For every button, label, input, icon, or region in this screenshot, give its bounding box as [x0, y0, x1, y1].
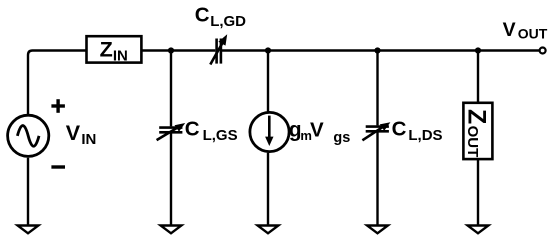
- label CL,GD: [195, 3, 246, 30]
- junction: output net at CL,DS branch: [374, 47, 380, 53]
- svg-text:C: C: [392, 118, 407, 141]
- label VIN: [66, 121, 97, 148]
- wire: VIN to ground: [27, 158, 29, 226]
- svg-text:OUT: OUT: [518, 25, 548, 41]
- ground (CL,GS): [161, 226, 182, 234]
- svg-text:Z: Z: [463, 109, 491, 124]
- impedance ZOUT: [463, 103, 492, 159]
- wire: current source to ground: [267, 153, 269, 226]
- polarity minus: [51, 165, 65, 168]
- svg-text:C: C: [195, 3, 210, 26]
- svg-text:OUT: OUT: [464, 126, 481, 158]
- wire: output net down to CL,DS: [376, 51, 378, 126]
- junction: output net at ZOUT branch: [475, 47, 481, 53]
- wire: ZIN to CL,GD: [141, 49, 215, 51]
- svg-text:V: V: [310, 118, 324, 141]
- svg-text:Z: Z: [100, 38, 113, 62]
- svg-text:IN: IN: [113, 47, 128, 64]
- wire: output net down to ZOUT: [477, 51, 479, 104]
- svg-text:gs: gs: [333, 130, 350, 146]
- capacitor CL,DS (variable): [362, 122, 390, 140]
- label CL,DS: [392, 118, 443, 145]
- junction: output net at gmVgs branch: [265, 47, 271, 53]
- wire: CL,GD to output terminal VOUT: [221, 49, 540, 51]
- svg-text:L,GD: L,GD: [210, 13, 246, 30]
- label VOUT: [503, 19, 548, 42]
- svg-text:C: C: [185, 118, 200, 141]
- output terminal VOUT (open circle): [540, 48, 546, 54]
- wire: output net down to current source: [267, 51, 269, 113]
- capacitor CL,GS (variable): [157, 123, 186, 140]
- capacitor CL,GD (variable): [210, 34, 227, 64]
- junction: gate node: [168, 47, 174, 53]
- svg-text:L,DS: L,DS: [408, 127, 442, 144]
- wire: gate node down to CL,GS: [170, 51, 172, 127]
- ground (ZOUT): [468, 226, 489, 234]
- ac voltage source VIN: [8, 115, 49, 156]
- svg-text:IN: IN: [81, 131, 96, 148]
- wire: input rail VIN corner to ZIN: [28, 51, 87, 117]
- wire: ZOUT to ground: [477, 159, 479, 226]
- ground (CL,DS): [367, 226, 388, 234]
- current source gmVgs: [250, 112, 289, 151]
- impedance ZIN: [87, 36, 142, 62]
- label ZIN: [100, 38, 128, 65]
- svg-text:V: V: [66, 121, 81, 145]
- label gmVgs: [289, 118, 351, 146]
- ground (VIN): [18, 226, 39, 234]
- polarity plus: [51, 99, 65, 113]
- label CL,GS: [185, 118, 238, 145]
- wire: CL,DS to ground: [376, 131, 378, 226]
- svg-text:L,GS: L,GS: [203, 127, 238, 144]
- wire: CL,GS to ground: [170, 132, 172, 226]
- label ZOUT (rotated): [463, 109, 491, 157]
- ground (gmVgs): [258, 226, 279, 234]
- svg-text:V: V: [503, 19, 516, 41]
